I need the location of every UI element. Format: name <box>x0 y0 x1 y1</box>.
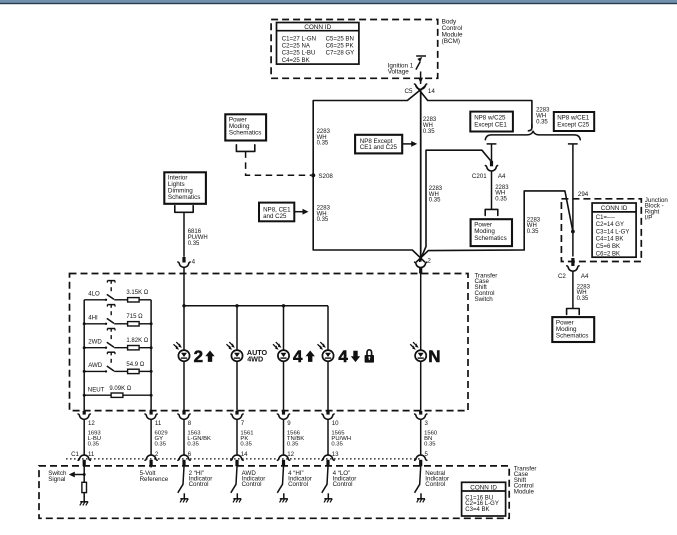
connector pin 12 (switch side) <box>78 411 95 427</box>
svg-text:C5=6 BK: C5=6 BK <box>596 244 620 250</box>
lamp DS4 4LO indicator <box>318 342 334 361</box>
module box Transfer Case Shift Control Switch (dashed) <box>70 274 469 411</box>
connector pin 2 (module side) <box>145 451 159 467</box>
top banner bar <box>0 0 677 4</box>
svg-text:11: 11 <box>155 420 162 427</box>
wire branch right of brace (to junction block) <box>568 144 578 257</box>
junction dot inside junction block <box>571 230 575 234</box>
callout NP8, CE1 and C25 <box>259 203 309 222</box>
svg-text:(BCM): (BCM) <box>442 38 460 45</box>
module box Junction Block Right I/P (dashed) <box>561 199 641 262</box>
svg-text:C2=14 GY: C2=14 GY <box>596 222 624 228</box>
svg-text:C3=4 BK: C3=4 BK <box>465 507 489 513</box>
svg-text:A4: A4 <box>498 173 506 180</box>
label 6816 PU/WH 0.35 <box>188 229 208 247</box>
wire bottom bus left segment <box>313 250 424 262</box>
wire right branch to option brace (top) <box>416 86 532 131</box>
svg-text:C5: C5 <box>404 88 413 95</box>
callout NP8 w/C25 Except CE1 <box>470 112 513 132</box>
module box U1 Body Control Module (dashed) <box>271 20 438 79</box>
wire left branch to S208 leg (top) <box>313 86 425 101</box>
svg-text:4HI: 4HI <box>88 315 98 322</box>
svg-text:0.35: 0.35 <box>188 241 200 247</box>
lamp DS5 NEUTRAL indicator <box>410 342 426 361</box>
svg-text:0.35: 0.35 <box>187 441 199 447</box>
svg-text:Module: Module <box>514 489 535 496</box>
switch S3 4HI position <box>84 305 115 325</box>
wire ladder right bus <box>150 300 152 411</box>
switch S1 Ignition 1 Voltage (inside BCM) <box>416 56 426 84</box>
svg-text:0.35: 0.35 <box>88 441 100 447</box>
label 2283 WH 0.35 (below C5) <box>423 117 437 135</box>
label 5-Volt Reference <box>140 466 169 483</box>
wire 2283 WH below C201 <box>491 171 493 209</box>
svg-text:NEUT: NEUT <box>88 386 105 393</box>
svg-text:C1: C1 <box>71 451 79 458</box>
svg-text:0.35: 0.35 <box>527 229 539 235</box>
svg-text:2WD: 2WD <box>88 338 102 345</box>
svg-text:Control: Control <box>425 481 445 488</box>
wire from bus up and into junction block <box>524 191 573 250</box>
connector pin 11 (switch side) <box>145 411 162 427</box>
svg-text:Schematics: Schematics <box>474 235 507 242</box>
label NEUT <box>88 386 105 393</box>
wire 6816 PU/WH <box>183 212 185 256</box>
connector table CONN ID (BCM) <box>277 23 359 65</box>
svg-text:7: 7 <box>241 420 245 427</box>
label Transfer Case Shift Control Module <box>514 465 537 495</box>
svg-text:0.35: 0.35 <box>536 119 548 125</box>
svg-text:C4=25 BK: C4=25 BK <box>282 57 310 64</box>
svg-text:C201: C201 <box>472 173 487 180</box>
svg-text:8: 8 <box>188 420 192 427</box>
resistor R4 54.9 Ω <box>114 362 151 374</box>
svg-text:14: 14 <box>428 88 436 95</box>
schematic ref box Power Moding Schematics (top left) <box>225 114 266 140</box>
switch S5 AWD position <box>84 352 115 372</box>
label 2283 WH 0.35 (junction block left leg) <box>527 217 541 235</box>
switch driver Q3 4HI indicator control <box>277 467 312 503</box>
svg-text:N: N <box>428 347 440 366</box>
label 294 (junction block feed) <box>578 191 589 198</box>
svg-text:Schematics: Schematics <box>168 194 201 201</box>
label 2283 WH 0.35 (left vertical lower) <box>317 205 331 223</box>
wire pin4 feed down to lamp bus <box>183 267 185 350</box>
wire pin2 feed down to N lamp <box>420 273 422 351</box>
wire 1561 PK segment <box>237 420 254 456</box>
resistor R5 9.09K (NEUT) <box>84 386 151 397</box>
switch driver Q5 Neutral indicator control <box>415 467 450 503</box>
svg-text:14: 14 <box>241 451 248 458</box>
label 2283 WH 0.35 (below C2) <box>577 284 591 302</box>
connector table CONN ID (module) <box>462 482 506 516</box>
label 2283 WH 0.35 (C201 branch) <box>495 185 509 203</box>
svg-text:AWD: AWD <box>88 362 103 369</box>
wire 1563 L-GN/BK segment <box>184 420 211 456</box>
junction dots ladder row 5 <box>83 394 153 397</box>
label 2283 WH 0.35 (branch vertical) <box>429 186 443 204</box>
dashed wire from Power Moding to splice S208 <box>246 151 311 175</box>
svg-text:A4: A4 <box>581 273 589 280</box>
svg-text:0.35: 0.35 <box>155 441 167 447</box>
svg-text:C7=28 GY: C7=28 GY <box>326 50 355 57</box>
svg-text:Except CE1: Except CE1 <box>474 121 507 128</box>
label 2283 WH 0.35 (left vertical upper) <box>317 129 331 147</box>
splice S208 <box>311 173 333 180</box>
svg-text:4LO: 4LO <box>88 291 100 298</box>
svg-text:12: 12 <box>287 451 294 458</box>
svg-text:0.35: 0.35 <box>317 141 329 147</box>
svg-text:1.82K Ω: 1.82K Ω <box>126 338 148 344</box>
svg-text:6: 6 <box>188 451 192 458</box>
connector C2 pin A4 (junction block bottom) <box>558 258 589 280</box>
resistor R3 1.82K Ω <box>114 338 151 350</box>
svg-text:Voltage: Voltage <box>388 69 410 76</box>
connector pin 2 (ignition feed into switch) <box>415 258 432 274</box>
label 4 (down) with lock <box>338 347 374 366</box>
switch driver Q2 AWD indicator control <box>231 467 266 503</box>
switch S4 2WD position <box>84 329 115 349</box>
svg-text:10: 10 <box>332 420 339 427</box>
svg-text:4: 4 <box>293 347 303 366</box>
callout NP8 w/CE1 Except C25 <box>554 112 594 131</box>
svg-text:2: 2 <box>427 258 431 265</box>
svg-text:C2: C2 <box>558 273 566 280</box>
svg-text:C4=14 BK: C4=14 BK <box>596 237 624 243</box>
connector C5 pin 14 (BCM output) <box>404 84 435 95</box>
svg-text:Schematics: Schematics <box>556 333 589 340</box>
svg-text:0.35: 0.35 <box>317 217 329 223</box>
connector C201 pin A4 <box>472 161 506 180</box>
svg-text:0.35: 0.35 <box>331 441 343 447</box>
svg-text:0.35: 0.35 <box>423 129 435 135</box>
svg-text:Reference: Reference <box>140 476 169 483</box>
svg-text:Signal: Signal <box>48 476 65 483</box>
label Ignition 1 Voltage <box>388 62 414 75</box>
svg-text:54.9 Ω: 54.9 Ω <box>126 362 144 368</box>
svg-text:Control: Control <box>242 481 262 488</box>
svg-text:Switch: Switch <box>475 296 494 303</box>
node Switch Signal (arrow + label) <box>48 467 85 484</box>
svg-text:and C25: and C25 <box>263 213 287 220</box>
schematic ref box Power Moding Schematics (C2) <box>552 317 594 342</box>
resistor R1 3.15K Ω <box>114 290 151 302</box>
svg-text:9.09K Ω: 9.09K Ω <box>109 386 131 392</box>
svg-text:11: 11 <box>88 451 95 458</box>
wire 1566 TN/BK segment <box>284 420 305 456</box>
svg-text:C3=25 L-BU: C3=25 L-BU <box>282 50 316 57</box>
connector pin 3 (switch side) <box>415 411 429 427</box>
switch S2 4LO position <box>84 281 115 301</box>
svg-text:Except C25: Except C25 <box>557 121 590 128</box>
svg-text:CE1 and C25: CE1 and C25 <box>360 144 398 151</box>
svg-text:Schematics: Schematics <box>229 130 262 137</box>
option brace (alternate routings) <box>485 131 580 140</box>
label Junction Block - Right I/P <box>645 197 669 221</box>
goes-to bracket below Interior Lights box <box>175 206 193 213</box>
wire branch left of brace (to C201) <box>487 144 497 161</box>
svg-text:C2=25 NA: C2=25 NA <box>282 43 311 50</box>
label N <box>428 347 440 366</box>
svg-text:Control: Control <box>333 481 353 488</box>
svg-text:3.15K Ω: 3.15K Ω <box>126 290 148 296</box>
svg-text:C6=2 BK: C6=2 BK <box>596 251 620 257</box>
connector pin 10 (switch side) <box>322 411 339 427</box>
svg-text:0.35: 0.35 <box>424 441 436 447</box>
connector pin 6 (module side) <box>178 451 192 467</box>
label 4 (up) <box>293 347 315 366</box>
goes-to bracket above Power Moding box (C201) <box>485 209 498 215</box>
connector pin 8 (switch side) <box>178 411 192 427</box>
svg-text:2: 2 <box>194 347 203 366</box>
svg-text:0.35: 0.35 <box>577 296 589 302</box>
wire ladder left bus <box>83 300 85 411</box>
wire 1693 L-BU segment <box>84 420 101 456</box>
svg-text:9: 9 <box>287 420 291 427</box>
svg-text:13: 13 <box>332 451 339 458</box>
wires lamp cathodes down to connector row <box>184 361 421 410</box>
junction dots ladder row 4 <box>83 370 153 373</box>
svg-text:12: 12 <box>88 420 95 427</box>
svg-text:4: 4 <box>192 258 196 265</box>
lamp DS2 AUTO 4WD indicator <box>227 342 243 361</box>
svg-text:I/P: I/P <box>645 214 653 221</box>
svg-text:0.35: 0.35 <box>429 198 441 204</box>
label C1 (module connector) <box>71 451 79 458</box>
goes-to bracket below Power Moding box <box>236 145 254 152</box>
wire left vertical 2283 WH (big box left side) <box>312 101 314 251</box>
callout NP8 Except CE1 and C25 <box>355 135 417 154</box>
label 2 (up) <box>194 347 215 366</box>
wire NP8 branch corner (bypass routing) <box>420 150 491 261</box>
svg-text:Control: Control <box>288 481 308 488</box>
lamp DS1 2HI indicator <box>174 342 190 361</box>
svg-text:0.35: 0.35 <box>240 441 252 447</box>
connector pin 14 (module side) <box>231 451 248 467</box>
switch driver Q4 4LO indicator control <box>322 467 357 503</box>
connector pin 11 (module side) <box>78 451 95 467</box>
svg-text:CONN ID: CONN ID <box>601 205 628 212</box>
svg-text:C3=14 L-GY: C3=14 L-GY <box>596 229 630 235</box>
junction dots on lamp bus <box>182 304 285 307</box>
svg-text:0.35: 0.35 <box>495 197 507 203</box>
label AUTO 4WD <box>247 348 268 363</box>
module box Transfer Case Shift Control Module (dashed) <box>39 466 509 518</box>
wire 1565 PU/WH segment <box>328 420 351 456</box>
resistor R2 715 Ω <box>114 314 151 326</box>
junction dots ladder row 3 <box>83 346 153 349</box>
svg-text:C5=25 BN: C5=25 BN <box>326 35 354 42</box>
svg-text:S208: S208 <box>318 173 333 180</box>
dotted connector tie line <box>66 458 421 460</box>
svg-text:4WD: 4WD <box>247 355 263 364</box>
svg-text:CONN ID: CONN ID <box>304 24 331 31</box>
connector table CONN ID (junction block) <box>592 203 636 257</box>
goes-to bracket above Power Moding box (C2) <box>567 309 580 315</box>
wire 1560 BN segment <box>421 420 438 456</box>
wire 2283 WH main vertical from C5 to connector 2 <box>420 90 422 262</box>
label Transfer Case Shift Control Switch <box>475 272 498 303</box>
svg-text:0.35: 0.35 <box>287 441 299 447</box>
junction dots ladder row 2 <box>83 322 153 325</box>
resistor R6 (switch signal pull) <box>82 482 87 497</box>
svg-text:C1=----: C1=---- <box>596 215 615 221</box>
switch driver Q1 2HI indicator control <box>178 467 213 503</box>
connector pin 7 (switch side) <box>231 411 245 427</box>
connector pin 9 (switch side) <box>277 411 291 427</box>
svg-text:CONN ID: CONN ID <box>470 484 497 491</box>
svg-text:C6=25 PK: C6=25 PK <box>326 43 354 50</box>
svg-text:294: 294 <box>578 191 589 198</box>
connector pin 13 (module side) <box>322 451 339 467</box>
svg-text:C1=27 L-GN: C1=27 L-GN <box>282 35 316 42</box>
connector pin 4 (switch illumination feed) <box>178 257 196 267</box>
connector pin 12 (module side) <box>277 451 294 467</box>
svg-text:4: 4 <box>338 347 348 366</box>
lamp DS3 4HI indicator <box>273 342 289 361</box>
svg-text:715 Ω: 715 Ω <box>126 314 143 320</box>
wire 2283 WH below C2 <box>572 272 574 309</box>
wire lamp supply bus <box>184 306 328 350</box>
svg-text:Control: Control <box>189 481 209 488</box>
label Body Control Module (BCM) <box>442 19 463 45</box>
wire 6029 GY segment <box>151 420 168 456</box>
label 2283 WH 0.35 (pigtail top right) <box>536 108 550 126</box>
connector pin 5 (module side) <box>415 451 429 467</box>
wire bottom bus right segment <box>417 250 524 262</box>
schematic ref box Power Moding Schematics (C201) <box>471 219 512 246</box>
ground G1 (switch signal) <box>80 496 88 505</box>
schematic ref box Interior Lights Dimming Schematics <box>164 172 206 204</box>
